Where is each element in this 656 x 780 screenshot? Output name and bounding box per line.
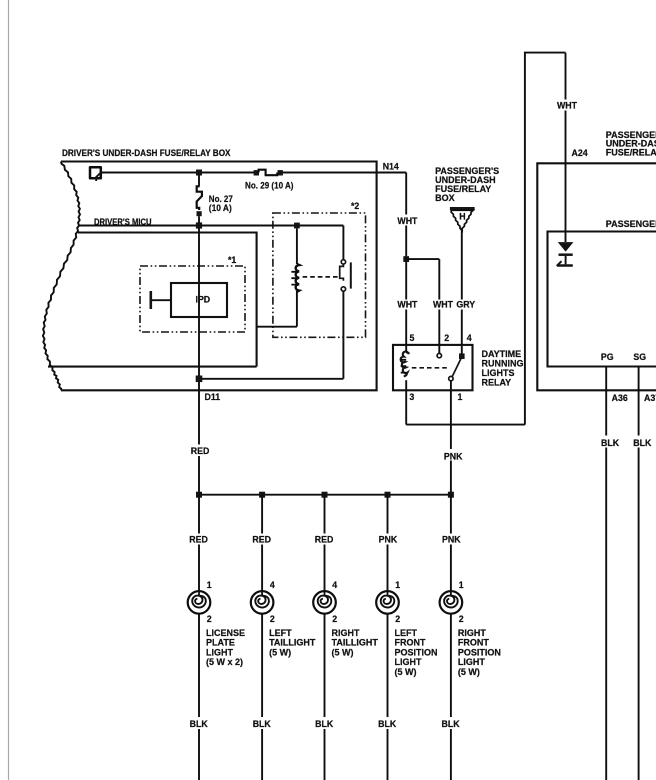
box PASSENGER'S UNDER-DASH FUSE/RELAY BOX (right) bbox=[537, 130, 656, 391]
svg-text:PLATE: PLATE bbox=[206, 638, 235, 648]
label LEFT TAILLIGHT bbox=[269, 628, 316, 657]
svg-text:TAILLIGHT: TAILLIGHT bbox=[269, 638, 316, 648]
fuse No.29 (10 A) bbox=[245, 170, 294, 191]
svg-text:*2: *2 bbox=[351, 201, 359, 211]
svg-text:2: 2 bbox=[459, 614, 464, 624]
svg-text:A36: A36 bbox=[612, 393, 628, 403]
svg-text:PNK: PNK bbox=[379, 535, 398, 545]
svg-text:(5 W): (5 W) bbox=[395, 667, 417, 677]
wire: D11 to bus (RED) bbox=[198, 445, 200, 495]
svg-text:WHT: WHT bbox=[433, 300, 454, 310]
svg-text:LICENSE: LICENSE bbox=[206, 628, 245, 638]
box passenger MICU (inner) bbox=[548, 219, 656, 367]
svg-text:FUSE/RELAY: FUSE/RELAY bbox=[606, 147, 656, 157]
svg-text:*1: *1 bbox=[228, 255, 236, 265]
wire: pin 3 to passenger MICU control bbox=[406, 424, 525, 426]
wire: fuse 27 down through IPD to D11 bbox=[198, 229, 200, 445]
svg-text:H: H bbox=[459, 211, 465, 221]
box DRIVER'S UNDER-DASH FUSE/RELAY BOX bbox=[43, 148, 377, 390]
svg-text:DRIVER'S UNDER-DASH FUSE/RELAY: DRIVER'S UNDER-DASH FUSE/RELAY BOX bbox=[62, 148, 231, 158]
svg-text:2: 2 bbox=[332, 614, 337, 624]
svg-text:POSITION: POSITION bbox=[458, 647, 501, 657]
svg-text:POSITION: POSITION bbox=[395, 647, 438, 657]
relay *2 coil bbox=[291, 229, 299, 327]
svg-text:A24: A24 bbox=[572, 148, 588, 158]
svg-text:PNK: PNK bbox=[442, 535, 461, 545]
svg-text:(10 A): (10 A) bbox=[209, 203, 232, 213]
terminal bar left of IPD bbox=[151, 291, 171, 309]
svg-text:RED: RED bbox=[315, 535, 334, 545]
label RIGHT TAILLIGHT bbox=[332, 628, 379, 657]
junction: bus tap 5 bbox=[448, 492, 454, 498]
junction on wire at fuse 27 bbox=[196, 222, 202, 228]
wire: MICU feed to relay *2 bbox=[79, 225, 344, 227]
wire: coil return into MICU bbox=[257, 326, 297, 328]
bus wire bbox=[199, 494, 451, 496]
svg-text:LIGHT: LIGHT bbox=[395, 657, 422, 667]
svg-text:LIGHTS: LIGHTS bbox=[482, 368, 515, 378]
svg-text:WHT: WHT bbox=[397, 216, 418, 226]
connector symbol (power input) bbox=[90, 167, 101, 181]
svg-text:2: 2 bbox=[270, 614, 275, 624]
wire: DRL control loop to A24 bbox=[525, 53, 566, 425]
box DRIVER'S MICU bbox=[48, 217, 257, 367]
wire PG ground bbox=[605, 367, 607, 780]
svg-text:(5 W): (5 W) bbox=[269, 647, 291, 657]
svg-text:SG: SG bbox=[633, 352, 646, 362]
relay box: DAYTIME RUNNING LIGHTS RELAY bbox=[393, 345, 524, 390]
svg-text:PNK: PNK bbox=[444, 451, 463, 461]
svg-text:DAYTIME: DAYTIME bbox=[482, 349, 522, 359]
svg-text:A37: A37 bbox=[644, 393, 656, 403]
wire: relay pin1 to bus (PNK) bbox=[450, 446, 452, 495]
svg-text:RED: RED bbox=[191, 446, 210, 456]
junction: bus tap 2 bbox=[259, 492, 265, 498]
wire: bus from connector to N14 bbox=[101, 172, 406, 174]
svg-text:RED: RED bbox=[252, 535, 271, 545]
svg-text:BOX: BOX bbox=[435, 193, 455, 203]
svg-text:FRONT: FRONT bbox=[395, 638, 426, 648]
svg-text:GRY: GRY bbox=[456, 300, 475, 310]
svg-text:BLK: BLK bbox=[190, 719, 209, 729]
svg-text:BLK: BLK bbox=[442, 719, 461, 729]
bulb LICENSE PLATE LIGHT bbox=[188, 580, 212, 624]
svg-text:4: 4 bbox=[332, 580, 337, 590]
svg-text:WHT: WHT bbox=[557, 100, 578, 110]
junction: bus tap 3 bbox=[322, 492, 328, 498]
junction D11 bbox=[196, 376, 203, 383]
junction at relay *2 coil bbox=[294, 223, 300, 229]
svg-text:BLK: BLK bbox=[601, 438, 620, 448]
svg-text:3: 3 bbox=[409, 392, 414, 402]
wire: branch to pin 2 bbox=[406, 259, 439, 353]
svg-text:LEFT: LEFT bbox=[395, 628, 418, 638]
svg-text:RELAY: RELAY bbox=[482, 378, 512, 388]
relay *2 switch contact bbox=[340, 226, 351, 379]
junction: bus tap 4 bbox=[385, 492, 391, 498]
svg-text:LIGHT: LIGHT bbox=[458, 657, 485, 667]
bulb LEFT TAILLIGHT bbox=[251, 580, 275, 624]
bulb RIGHT FRONT POSITION LIGHT bbox=[440, 580, 464, 624]
wire branch 1 (RED) bbox=[198, 495, 200, 780]
wire branch 4 (PNK) bbox=[387, 495, 389, 780]
wire GRY: H to relay pin 4 bbox=[461, 231, 463, 355]
dashed link coil-switch bbox=[303, 276, 339, 278]
svg-text:TAILLIGHT: TAILLIGHT bbox=[332, 638, 379, 648]
svg-text:BLK: BLK bbox=[315, 719, 334, 729]
diode bbox=[557, 243, 573, 266]
label RIGHT FRONT POSITION LIGHT bbox=[458, 628, 501, 677]
relay coil (pins 5-3) bbox=[401, 352, 409, 425]
wire: N14 down to DRL relay pin 5 bbox=[405, 173, 407, 353]
svg-text:(5 W): (5 W) bbox=[332, 647, 354, 657]
bulb RIGHT TAILLIGHT bbox=[313, 580, 337, 624]
svg-text:5: 5 bbox=[410, 333, 415, 343]
fuse No.27 (10 A) bbox=[197, 175, 233, 226]
dash-dot box *1 bbox=[140, 255, 245, 332]
svg-text:1: 1 bbox=[459, 580, 464, 590]
wire SG ground bbox=[638, 367, 640, 780]
junction: fuse 27 tap bbox=[196, 170, 202, 176]
svg-text:(5 W): (5 W) bbox=[458, 667, 480, 677]
bulb LEFT FRONT POSITION LIGHT bbox=[376, 580, 400, 624]
svg-text:1: 1 bbox=[458, 392, 463, 402]
svg-text:LEFT: LEFT bbox=[269, 628, 292, 638]
page edge line bbox=[8, 0, 10, 780]
svg-text:4: 4 bbox=[467, 333, 472, 343]
H symbol (passenger box feed) bbox=[450, 209, 475, 231]
svg-text:(5 W x 2): (5 W x 2) bbox=[206, 657, 243, 667]
wire: relay *2 output to D11 bbox=[199, 378, 343, 380]
svg-text:RIGHT: RIGHT bbox=[458, 628, 487, 638]
svg-text:BLK: BLK bbox=[633, 438, 652, 448]
wire branch 3 (RED) bbox=[324, 495, 326, 780]
svg-text:2: 2 bbox=[395, 614, 400, 624]
wire branch 2 (RED) bbox=[261, 495, 263, 780]
junction: bus tap 1 bbox=[196, 492, 202, 498]
svg-text:BLK: BLK bbox=[378, 719, 397, 729]
svg-text:PG: PG bbox=[601, 352, 614, 362]
svg-text:2: 2 bbox=[444, 333, 449, 343]
svg-text:RIGHT: RIGHT bbox=[332, 628, 361, 638]
svg-text:D11: D11 bbox=[205, 392, 221, 402]
svg-text:IPD: IPD bbox=[196, 295, 211, 305]
label LEFT FRONT POSITION LIGHT bbox=[395, 628, 438, 677]
svg-text:BLK: BLK bbox=[253, 719, 272, 729]
junction WHT branch bbox=[403, 256, 409, 262]
svg-text:LIGHT: LIGHT bbox=[206, 647, 233, 657]
dash-dot box *2 (relay) bbox=[273, 201, 366, 337]
svg-text:WHT: WHT bbox=[397, 300, 418, 310]
svg-text:1: 1 bbox=[395, 580, 400, 590]
svg-text:1: 1 bbox=[207, 580, 212, 590]
svg-text:RED: RED bbox=[189, 535, 208, 545]
svg-text:PASSENGER’: PASSENGER’ bbox=[606, 219, 656, 229]
svg-text:No. 29 (10 A): No. 29 (10 A) bbox=[245, 180, 294, 190]
svg-text:4: 4 bbox=[270, 580, 275, 590]
dashed link relay bbox=[412, 367, 448, 369]
svg-text:N14: N14 bbox=[383, 162, 399, 172]
wire branch 5 (PNK) bbox=[450, 495, 452, 780]
IPD box U1 bbox=[171, 283, 227, 317]
svg-text:2: 2 bbox=[207, 614, 212, 624]
relay switch (pins 2-4-1) bbox=[437, 353, 465, 446]
svg-text:RUNNING: RUNNING bbox=[482, 359, 524, 369]
label LICENSE PLATE LIGHT bbox=[206, 628, 245, 667]
svg-text:FRONT: FRONT bbox=[458, 638, 489, 648]
